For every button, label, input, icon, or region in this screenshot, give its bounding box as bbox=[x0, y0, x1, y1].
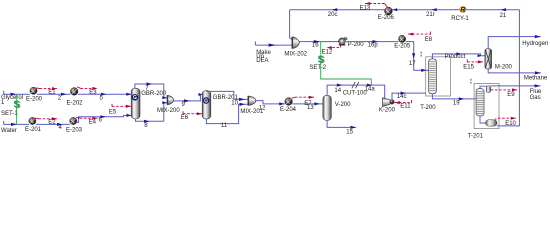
svg-text:E5: E5 bbox=[109, 109, 117, 115]
svg-text:21r: 21r bbox=[426, 12, 435, 18]
svg-text:V-200: V-200 bbox=[335, 102, 351, 108]
svg-text:E15: E15 bbox=[463, 65, 474, 71]
svg-text:16p: 16p bbox=[368, 43, 379, 49]
svg-text:21: 21 bbox=[500, 13, 507, 19]
svg-text:10: 10 bbox=[231, 100, 238, 106]
svg-text:E-205: E-205 bbox=[394, 44, 411, 50]
svg-text:E8: E8 bbox=[425, 37, 433, 43]
svg-text:RCY-1: RCY-1 bbox=[451, 16, 469, 22]
svg-text:17: 17 bbox=[409, 61, 416, 67]
svg-text:M-200: M-200 bbox=[495, 64, 513, 70]
svg-text:E-203: E-203 bbox=[66, 128, 83, 134]
svg-text:P-200: P-200 bbox=[348, 42, 365, 48]
svg-text:K-200: K-200 bbox=[379, 107, 396, 113]
svg-text:Methane: Methane bbox=[524, 76, 548, 82]
svg-text:E-200: E-200 bbox=[26, 97, 43, 103]
svg-text:14c: 14c bbox=[397, 94, 407, 100]
svg-text:G: G bbox=[133, 95, 137, 101]
svg-text:E-206: E-206 bbox=[378, 15, 395, 21]
svg-text:E11: E11 bbox=[400, 104, 411, 110]
svg-text:14a: 14a bbox=[365, 86, 376, 92]
svg-text:Water: Water bbox=[1, 128, 17, 134]
svg-text:DEA: DEA bbox=[256, 58, 268, 64]
svg-text:T-201: T-201 bbox=[468, 133, 484, 139]
svg-text:T-200: T-200 bbox=[420, 105, 436, 111]
svg-text:Gas: Gas bbox=[530, 95, 541, 101]
svg-text:GBR-200: GBR-200 bbox=[141, 91, 167, 97]
svg-text:19: 19 bbox=[453, 101, 460, 107]
svg-text:E4: E4 bbox=[89, 119, 97, 125]
svg-text:E-202: E-202 bbox=[67, 101, 84, 107]
svg-text:20c: 20c bbox=[328, 12, 338, 18]
svg-text:E3: E3 bbox=[89, 90, 97, 96]
svg-text:E6: E6 bbox=[181, 115, 189, 121]
svg-text:14: 14 bbox=[334, 88, 341, 94]
svg-text:CUT-100: CUT-100 bbox=[343, 91, 368, 97]
svg-text:MIX-202: MIX-202 bbox=[284, 52, 307, 58]
svg-text:15: 15 bbox=[346, 130, 353, 136]
svg-text:11: 11 bbox=[221, 123, 228, 129]
svg-text:G: G bbox=[204, 98, 208, 104]
svg-text:E1: E1 bbox=[48, 89, 56, 95]
svg-text:MIX-200: MIX-200 bbox=[157, 108, 180, 114]
svg-text:R: R bbox=[460, 5, 466, 14]
svg-text:12: 12 bbox=[259, 106, 266, 112]
svg-text:$: $ bbox=[14, 99, 20, 111]
svg-text:13: 13 bbox=[307, 105, 314, 111]
svg-text:E13: E13 bbox=[360, 5, 371, 11]
svg-text:SET-1: SET-1 bbox=[1, 111, 18, 117]
svg-text:E9: E9 bbox=[507, 92, 515, 98]
svg-text:Product: Product bbox=[445, 54, 466, 60]
svg-text:SET-2: SET-2 bbox=[309, 65, 326, 71]
svg-text:E-204: E-204 bbox=[280, 107, 297, 113]
svg-text:E2: E2 bbox=[48, 119, 56, 125]
svg-text:E-201: E-201 bbox=[25, 127, 42, 133]
svg-text:Hydrogen: Hydrogen bbox=[522, 41, 548, 47]
svg-text:16: 16 bbox=[312, 42, 319, 48]
